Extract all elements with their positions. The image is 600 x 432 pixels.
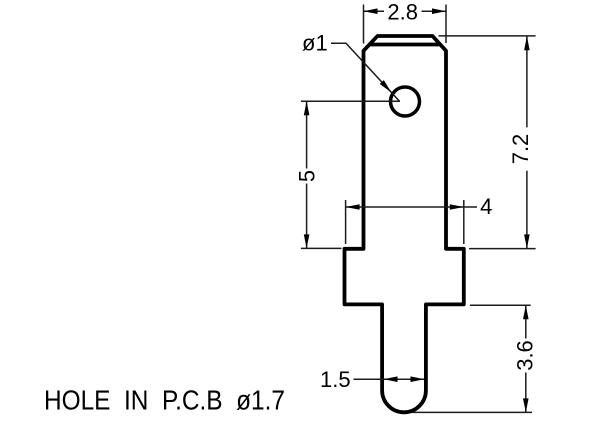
hole label leader line [331, 43, 400, 101]
dim 3.6 extension line top [470, 304, 531, 306]
dim 5 extension line bottom [301, 247, 342, 249]
dim 5 extension line top [301, 100, 400, 102]
svg-text:HOLE IN P.C.B ø1.7: HOLE IN P.C.B ø1.7 [44, 385, 285, 416]
blade chamfer edge line [371, 43, 438, 47]
dim 3.6 extension line bottom [412, 411, 532, 413]
svg-text:7.2: 7.2 [508, 134, 533, 165]
dim 5 arrow down [304, 234, 310, 248]
dim 4 dimension line [346, 206, 477, 208]
dim 1.5 arrow left [384, 376, 398, 382]
dim 5 arrow up [304, 101, 310, 115]
dim 3.6 dimension line [525, 305, 527, 412]
dim 7.2 extension line top [439, 35, 536, 37]
dim 2.8 dimension line [364, 10, 447, 12]
dim 2.8 extension line right [445, 5, 447, 44]
svg-text:1.5: 1.5 [320, 367, 351, 392]
dim 7.2 dimension line [526, 36, 528, 248]
hole circle [391, 87, 420, 116]
dim 2.8 extension line left [363, 5, 365, 44]
svg-text:5: 5 [295, 170, 320, 182]
terminal body outline [345, 36, 464, 412]
dim 3.6 arrow down [523, 398, 529, 412]
dim 1.5 arrow right [411, 376, 425, 382]
dim 3.6 arrow up [523, 305, 529, 319]
dim 7.2 arrow down [524, 234, 530, 248]
dim 5 dimension line [306, 101, 308, 248]
svg-text:ø1: ø1 [302, 31, 328, 56]
dim 4 extension line left [345, 200, 347, 244]
dim 1.5 dimension line [354, 378, 425, 380]
dim 7.2 extension line bottom [469, 248, 536, 250]
svg-text:4: 4 [480, 194, 492, 219]
dim 4 arrow right [450, 204, 464, 210]
hole label leader arrow [380, 80, 392, 92]
dim 2.8 arrow left [364, 8, 378, 14]
svg-text:2.8: 2.8 [387, 0, 418, 24]
dim 4 arrow left [346, 204, 360, 210]
dim 7.2 arrow up [524, 36, 530, 50]
svg-text:3.6: 3.6 [513, 340, 538, 371]
dim 2.8 arrow right [432, 8, 446, 14]
dim 4 extension line right [463, 200, 465, 244]
